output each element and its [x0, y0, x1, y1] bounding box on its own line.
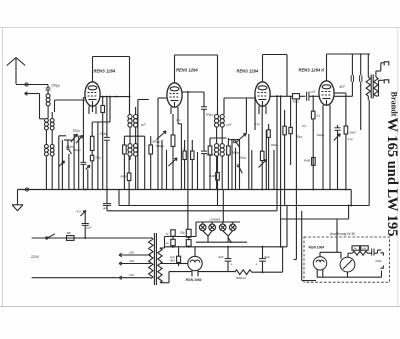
- label RGN 1064: [186, 278, 202, 282]
- wire drop: [161, 140, 163, 190]
- resistor R9: [227, 138, 231, 190]
- label smudge c: [177, 118, 181, 122]
- horizontal link 2: [210, 137, 227, 139]
- coil L3b: [50, 145, 54, 156]
- option resistor label box b: [361, 246, 369, 250]
- label RGN 1064 option: [309, 246, 325, 250]
- option wiring top: [320, 252, 341, 258]
- label 500pF CT3: [239, 156, 247, 160]
- wire V2 grid: [138, 100, 149, 190]
- secondary mid tap: [160, 263, 179, 265]
- label plus C12: [231, 263, 233, 267]
- anode rail stage4: [327, 53, 371, 55]
- coil L1 top winding: [46, 90, 50, 106]
- trimmer CT1a: [71, 134, 78, 142]
- svg-text:110: 110: [129, 273, 134, 277]
- IF2 top coil b: [220, 115, 224, 128]
- mains switch S1: [46, 234, 56, 239]
- label 500pF C6: [206, 153, 214, 157]
- output transformer primary: [366, 54, 370, 100]
- svg-text:4,5: 4,5: [77, 210, 82, 214]
- svg-text:8μF: 8μF: [265, 255, 270, 259]
- page scan bottom edge: [0, 306, 400, 308]
- label R17: [304, 159, 310, 163]
- resistor R18: [344, 126, 348, 190]
- svg-text:30μμ: 30μμ: [296, 135, 303, 139]
- svg-text:Ω: Ω: [183, 148, 185, 151]
- dial lamp 1: [199, 224, 206, 231]
- junction: [187, 91, 189, 93]
- junction: [84, 237, 86, 239]
- label 100pF d: [271, 143, 279, 147]
- svg-text:100μμ: 100μμ: [51, 84, 60, 88]
- label 1u a: [166, 232, 170, 236]
- option rectifier tube: [313, 257, 326, 270]
- electrolytic C13 8uF: [259, 247, 266, 273]
- svg-text:RENS 1264: RENS 1264: [94, 69, 116, 74]
- svg-text:RENS 1264: RENS 1264: [237, 69, 259, 74]
- tube V4 RENS1264d: [319, 81, 334, 105]
- label 50u: [180, 231, 185, 235]
- label C-bus: [102, 206, 108, 210]
- label 4,5: [77, 210, 82, 214]
- svg-text:150: 150: [129, 251, 134, 255]
- IF2 link wires: [217, 127, 223, 144]
- label 300pF C5: [206, 113, 214, 117]
- svg-text:+: +: [256, 263, 258, 267]
- grid leak R16: [311, 96, 315, 189]
- B+ line: [165, 246, 287, 248]
- option bottom wire: [317, 271, 382, 278]
- label 220V: [30, 255, 40, 259]
- label 30pF: [296, 135, 303, 139]
- bus junction dots: [84, 189, 347, 191]
- ground bus: [18, 189, 352, 191]
- resistor R7b: [183, 140, 186, 190]
- option box dashed border: [304, 237, 390, 282]
- label 8uF: [265, 255, 270, 259]
- capacitor C10 lead up: [84, 212, 86, 224]
- lamp switch hook: [228, 238, 232, 243]
- svg-text:W 165 und LW 195: W 165 und LW 195: [384, 118, 400, 237]
- wire tube1 screen feed: [83, 98, 85, 163]
- resistor R10: [216, 156, 220, 205]
- trimmer CT3: [237, 134, 247, 143]
- IF2 coil drops: [217, 156, 223, 189]
- trimmer CT2: [157, 131, 167, 140]
- option wire to field: [374, 250, 381, 253]
- tap arrow 150: [119, 253, 151, 256]
- tube V4 legs: [323, 105, 330, 114]
- antenna: [7, 58, 25, 85]
- label 6uF: [219, 255, 224, 259]
- label RENS 1264 (V3): [237, 69, 259, 74]
- page scan left edge: [2, 28, 4, 307]
- anode wire V2: [182, 91, 204, 93]
- tube V2 RENS1264: [167, 83, 182, 107]
- option resistor network: [353, 251, 368, 255]
- resistor R2 small: [90, 155, 93, 189]
- page scan top edge: [0, 27, 400, 29]
- coil L2a: [45, 119, 49, 130]
- volume pot R7: [171, 114, 175, 160]
- resistor R5: [149, 136, 153, 189]
- svg-text:0,1μ: 0,1μ: [255, 122, 261, 126]
- junction: [348, 205, 353, 207]
- label 1uF400: [170, 255, 175, 263]
- label 300pF CT3: [232, 151, 240, 155]
- svg-text:RENS 1264: RENS 1264: [176, 68, 198, 73]
- B+ stage3 long drop: [280, 96, 282, 247]
- capacitor C10: [82, 224, 89, 226]
- wire to option box hook: [293, 190, 296, 260]
- wire drop: [68, 154, 70, 190]
- capacitor C11 1uF400: [177, 247, 181, 266]
- label 1u b: [166, 241, 170, 245]
- page scan right edge: [397, 28, 399, 307]
- resistor R15 series: [293, 94, 300, 99]
- capacitor C5: [201, 92, 207, 151]
- junction: [129, 96, 131, 98]
- tube V1 cathode drop: [92, 106, 94, 112]
- grid rail stage1: [93, 57, 130, 115]
- junction: [276, 95, 278, 97]
- junction: [280, 95, 282, 97]
- dial lamp 2: [209, 224, 216, 231]
- grid cap wire V3: [262, 55, 264, 82]
- tap arrow 130: [119, 262, 151, 265]
- wire secondary top to jack: [376, 63, 384, 77]
- wire drop: [254, 95, 256, 130]
- wire: [300, 95, 306, 97]
- wire terminal down: [40, 94, 45, 119]
- svg-text:RAB: RAB: [121, 175, 127, 179]
- anode wire V3: [270, 95, 292, 97]
- capacitor C-ant 100pF: [46, 85, 51, 91]
- svg-text:μμF: μμF: [226, 123, 232, 127]
- capacitor C2: [81, 162, 87, 189]
- svg-text:1μ: 1μ: [166, 232, 170, 236]
- wire drop CT3 feed: [245, 98, 247, 134]
- cathode resistor R11: [260, 106, 264, 190]
- wire drop: [251, 150, 253, 190]
- label 100pF: [51, 84, 60, 88]
- terminal E: [25, 92, 40, 96]
- capacitor C14: [335, 125, 341, 190]
- label 130: [129, 259, 134, 263]
- bias link rail: [281, 206, 349, 220]
- wire drop: [78, 136, 80, 190]
- label 0,1 d: [255, 122, 261, 126]
- label RENS 1264 d (V4): [299, 68, 325, 73]
- svg-text:μμF: μμF: [310, 90, 316, 94]
- wire drop: [73, 134, 75, 190]
- capacitor C3: [104, 97, 110, 190]
- IF2 top coil a: [215, 110, 219, 127]
- svg-text:RAB: RAB: [209, 174, 215, 178]
- svg-text:RAB: RAB: [304, 159, 310, 163]
- svg-text:SB: SB: [67, 231, 71, 235]
- svg-text:Ausführung W 48: Ausführung W 48: [329, 232, 355, 236]
- svg-text:400: 400: [170, 258, 175, 262]
- mains line bottom: [32, 277, 119, 279]
- svg-text:500μμ: 500μμ: [156, 144, 164, 148]
- wire drop: [58, 136, 60, 190]
- speaker jack bottom: [384, 80, 389, 84]
- resistor R8: [208, 138, 212, 190]
- tube V1 legs: [89, 106, 96, 114]
- svg-text:Brandt: Brandt: [390, 92, 399, 117]
- wire feed horizontal: [92, 121, 110, 123]
- svg-text:μμF: μμF: [102, 206, 108, 210]
- grid rail stage2: [175, 55, 218, 115]
- AVC rail: [107, 210, 277, 212]
- label R6: [121, 175, 127, 179]
- svg-text:0,1: 0,1: [317, 114, 321, 118]
- label 0,1: [96, 156, 102, 160]
- wire drop: [295, 99, 297, 190]
- junction: [116, 96, 118, 98]
- svg-text:100μμ: 100μμ: [100, 132, 108, 136]
- wire secondary bottom to jack: [376, 80, 384, 96]
- resistor R7c: [191, 140, 194, 190]
- svg-text:0,5: 0,5: [302, 124, 306, 128]
- fuse F1: [67, 236, 75, 241]
- lamp top wire: [196, 222, 240, 224]
- svg-text:1μ: 1μ: [166, 241, 170, 245]
- IF1 bottom coil b: [134, 144, 138, 157]
- resistor R14: [289, 96, 292, 165]
- label R16: [317, 114, 321, 118]
- resistor R13: [283, 110, 286, 206]
- decoupling rail: [119, 190, 369, 206]
- label R10: [209, 174, 215, 178]
- label 5000: [236, 276, 247, 280]
- label 300pF a: [66, 145, 74, 149]
- junction: [312, 95, 314, 97]
- speaker jack top: [384, 62, 389, 66]
- title Brandt: [390, 92, 399, 117]
- junction: [102, 96, 111, 98]
- secondary top tap: [160, 237, 196, 249]
- bus1 right end drop: [350, 190, 352, 206]
- resistor R4: [123, 136, 127, 189]
- wire switch top: [229, 140, 240, 190]
- svg-text:Feld: Feld: [376, 259, 382, 263]
- grid cap wire V2: [174, 55, 176, 83]
- svg-text:220V: 220V: [30, 255, 40, 259]
- svg-text:0,1μ: 0,1μ: [348, 137, 354, 141]
- IF1 bottom coil a: [128, 144, 132, 157]
- label smudge e: [317, 133, 325, 137]
- IF2 bottom coil a: [215, 144, 219, 157]
- wire option feed: [302, 211, 316, 281]
- label C7: [310, 90, 316, 94]
- switch S0: [67, 148, 72, 155]
- label M.F: [340, 85, 347, 89]
- wire link horizontal: [59, 135, 66, 137]
- potentiometer arrow P1: [81, 211, 86, 217]
- option capacitor: [368, 249, 375, 256]
- svg-text:M.F: M.F: [340, 85, 347, 89]
- grid cap wire V1: [92, 57, 94, 82]
- capacitor C9: [360, 54, 362, 130]
- svg-text:6μF: 6μF: [219, 255, 224, 259]
- wire V4 leg drop a: [322, 114, 324, 190]
- dial lamp 4: [229, 224, 236, 231]
- label smudge a: [73, 129, 81, 133]
- wire drop: [265, 130, 267, 190]
- grid wire V3: [224, 98, 255, 115]
- coil L2b: [50, 112, 54, 130]
- secondary bottom tap: [160, 272, 192, 283]
- wire V4 leg drop b: [329, 114, 331, 190]
- svg-text:5042: 5042: [350, 131, 357, 135]
- ground symbol: [12, 205, 23, 211]
- rectifier top lead: [194, 247, 196, 256]
- IF2 bottom coil b: [220, 144, 224, 157]
- wire drop: [235, 148, 237, 190]
- pot arrow P2: [169, 158, 178, 166]
- heater return wire: [196, 241, 247, 243]
- label smudge b: [140, 123, 146, 127]
- junction: [188, 246, 282, 248]
- wire coil L3b to bus: [51, 156, 53, 190]
- capacitor box CB3: [186, 229, 191, 237]
- wire switch top: [64, 140, 72, 148]
- wire coil L3a to bus: [45, 156, 47, 190]
- field coil wire: [252, 271, 283, 273]
- wire coil link b: [51, 130, 53, 145]
- lamp pair join 2: [223, 231, 233, 243]
- label LD lamps: [210, 218, 221, 222]
- switch S2: [233, 141, 239, 148]
- label smudge f: [348, 137, 354, 141]
- IF1 link wires: [130, 127, 136, 144]
- wire coil link a: [45, 130, 47, 145]
- B+ feed stage2 long drop: [187, 92, 189, 229]
- resistor R17: [312, 158, 316, 166]
- label Feld: [376, 259, 382, 263]
- horizontal link: [124, 135, 144, 137]
- wire grid takeoff: [55, 100, 85, 112]
- label R7b: [183, 148, 185, 151]
- resistor R3: [101, 97, 105, 190]
- wire transformer bottom long drop: [368, 100, 370, 206]
- lamp pair join 1: [203, 231, 213, 243]
- tube V3 RENS1264: [255, 82, 270, 106]
- wire anode V4 side: [334, 93, 346, 126]
- svg-text:1000: 1000: [361, 248, 367, 250]
- capacitor C8: [351, 54, 353, 96]
- svg-text:5000 Ω: 5000 Ω: [236, 276, 247, 280]
- pot arrow P3: [259, 160, 267, 168]
- power transformer core: [154, 233, 156, 285]
- B+ riser to anodes: [286, 206, 288, 247]
- resistor R6: [127, 156, 131, 205]
- capacitor C7: [307, 92, 309, 101]
- mains line top: [32, 237, 151, 239]
- ground lead: [17, 190, 19, 205]
- field terminal top: [380, 253, 383, 256]
- wire feed up: [109, 97, 111, 122]
- trimmer arrow C2: [86, 165, 90, 169]
- svg-text:300μμ: 300μμ: [232, 151, 240, 155]
- capacitor C6: [201, 151, 207, 189]
- wire drop: [61, 140, 63, 190]
- electrolytic C12 6uF: [225, 247, 232, 272]
- option driver circle: [340, 257, 355, 272]
- capacitor box CB2: [171, 239, 175, 248]
- tube V1 RENS1264: [85, 82, 100, 106]
- wire drop: [180, 124, 182, 190]
- wire drop: [197, 152, 199, 190]
- junction ring on bus: [25, 188, 28, 191]
- svg-text:LD406A: LD406A: [210, 218, 221, 222]
- label plus C13: [256, 263, 258, 267]
- label RENS 1264 (V2): [176, 68, 198, 73]
- tube V2 legs: [171, 107, 178, 114]
- anode wire V1: [100, 96, 130, 98]
- label 500pF a: [73, 148, 81, 152]
- IF1 coil drops: [130, 156, 136, 189]
- svg-text:300μμ: 300μμ: [73, 129, 81, 133]
- svg-text:50μ: 50μ: [180, 231, 185, 235]
- field coil riser: [282, 247, 284, 272]
- junction: [262, 271, 264, 273]
- dial lamp 3: [219, 224, 226, 231]
- wire pot bottom: [172, 160, 174, 190]
- grid rail stage3: [263, 55, 288, 97]
- trimmer arrow C14: [334, 134, 340, 141]
- label C10 script: [86, 226, 92, 230]
- wire screen line: [334, 95, 352, 97]
- potentiometer arrow P0: [59, 161, 65, 167]
- rectifier legs: [192, 270, 198, 276]
- connector ring: [25, 83, 28, 86]
- resistor R1 big: [90, 122, 94, 155]
- svg-text:RGN 1064: RGN 1064: [309, 246, 325, 250]
- svg-text:0,1μ: 0,1μ: [96, 156, 102, 160]
- output transformer core: [371, 75, 373, 99]
- svg-text:500μμ: 500μμ: [239, 156, 247, 160]
- svg-text:130: 130: [129, 259, 134, 263]
- wire heater left riser: [195, 222, 197, 237]
- wire drop: [166, 150, 168, 190]
- label Ausfuehrung W 48: [329, 232, 355, 236]
- wire antenna to coupling cap: [16, 84, 48, 86]
- power transformer primary: [149, 237, 153, 278]
- label 100pF C3: [100, 132, 108, 136]
- wire drop: [239, 140, 241, 190]
- trimmer CT1b: [76, 135, 83, 143]
- label R18: [350, 131, 357, 135]
- rectifier RGN1064: [188, 256, 202, 270]
- label 110: [129, 273, 134, 277]
- wire drop: [273, 150, 275, 190]
- svg-text:100μμ: 100μμ: [271, 143, 279, 147]
- coil L3a: [45, 145, 49, 156]
- capacitor box CB1: [171, 230, 175, 240]
- IF1 top coil a: [128, 97, 132, 128]
- field terminal bottom: [380, 265, 383, 268]
- rectifier anode lead: [179, 263, 188, 265]
- svg-text:μμF: μμF: [140, 123, 146, 127]
- wire to V4: [309, 95, 319, 97]
- wire lamp feed drop: [222, 190, 224, 223]
- wire drop: [87, 170, 89, 190]
- svg-text:+: +: [231, 263, 233, 267]
